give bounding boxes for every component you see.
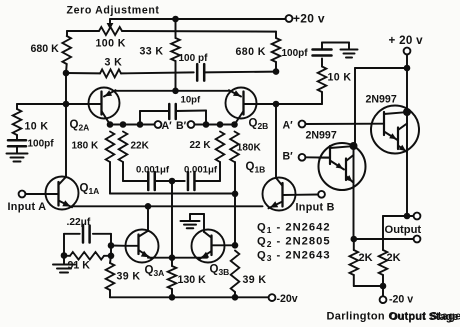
svg-text:A′: A′	[283, 119, 294, 131]
svg-text:2K: 2K	[387, 252, 401, 264]
svg-text:B′: B′	[176, 120, 187, 132]
svg-text:B′: B′	[283, 150, 294, 162]
svg-text:3 K: 3 K	[105, 57, 123, 69]
svg-text:A′: A′	[162, 120, 173, 132]
svg-text:Output: Output	[385, 224, 422, 236]
svg-text:39 K: 39 K	[117, 270, 141, 282]
svg-text:10 K: 10 K	[328, 72, 352, 84]
svg-text:Input B: Input B	[296, 201, 335, 213]
svg-text:10 K: 10 K	[25, 120, 49, 132]
svg-text:130 K: 130 K	[178, 274, 207, 286]
svg-text:-20v: -20v	[277, 293, 298, 305]
svg-text:Zero Adjustment: Zero Adjustment	[67, 4, 160, 16]
svg-text:180 K: 180 K	[72, 141, 99, 152]
svg-text:39 K: 39 K	[243, 274, 267, 286]
svg-text:-20 v: -20 v	[389, 293, 413, 305]
svg-text:2N997: 2N997	[366, 94, 397, 106]
svg-text:33 K: 33 K	[140, 46, 164, 58]
svg-text:180K: 180K	[237, 142, 262, 153]
svg-text:22 K: 22 K	[190, 140, 212, 151]
svg-text:100pf: 100pf	[28, 139, 55, 150]
svg-text:+20 v: +20 v	[293, 11, 325, 25]
svg-text:22K: 22K	[131, 141, 150, 152]
svg-text:100 pf: 100 pf	[179, 53, 209, 64]
svg-text:10pf: 10pf	[181, 95, 202, 106]
svg-text:0.001μf: 0.001μf	[136, 165, 170, 176]
svg-text:+ 20 v: + 20 v	[389, 34, 424, 47]
svg-text:100pf: 100pf	[282, 48, 309, 59]
svg-text:Input A: Input A	[8, 201, 47, 213]
svg-text:680 K: 680 K	[236, 46, 266, 58]
svg-text:.22μf: .22μf	[67, 217, 91, 228]
svg-text:Output Stage: Output Stage	[390, 311, 459, 323]
svg-text:100 K: 100 K	[96, 37, 126, 49]
svg-text:680 K: 680 K	[31, 43, 60, 55]
svg-text:2N997: 2N997	[306, 130, 337, 142]
svg-text:2K: 2K	[359, 252, 373, 264]
svg-text:0.001μf: 0.001μf	[184, 165, 218, 176]
svg-text:91 K: 91 K	[68, 260, 91, 272]
